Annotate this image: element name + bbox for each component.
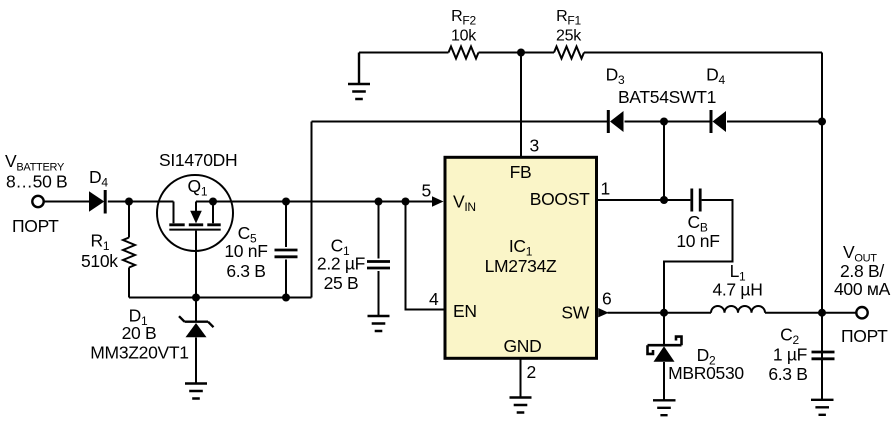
terminal input port	[32, 196, 43, 207]
svg-text:EN: EN	[453, 301, 477, 321]
arrow out of SW pin 6	[598, 308, 609, 317]
wire BOOST pin 1	[598, 200, 733, 313]
svg-text:RF2: RF2	[451, 8, 476, 28]
capacitor C5	[285, 202, 287, 298]
capacitor C1	[367, 202, 390, 317]
svg-text:10k: 10k	[451, 28, 477, 45]
node C5 top	[282, 198, 290, 206]
ground top-left	[348, 53, 370, 100]
wire left riser	[311, 122, 313, 298]
wire D3 junction to BOOST	[663, 122, 665, 201]
svg-text:BAT54SWT1: BAT54SWT1	[618, 87, 716, 107]
diode D2 schottky	[648, 313, 682, 401]
ground D2	[653, 400, 676, 415]
node FB divider junction	[517, 49, 525, 57]
svg-text:ПОРТ: ПОРТ	[841, 326, 888, 346]
svg-text:VBATTERY: VBATTERY	[5, 151, 65, 174]
diode D4 top	[711, 110, 726, 133]
svg-text:RF1: RF1	[556, 8, 581, 28]
svg-text:SW: SW	[561, 303, 589, 323]
node right rail top junction	[818, 118, 826, 126]
terminal output port	[856, 307, 867, 318]
capacitor C2	[812, 352, 835, 359]
node Q1 gate bottom	[192, 294, 200, 302]
svg-text:1 µF: 1 µF	[773, 345, 807, 365]
svg-text:1: 1	[601, 179, 610, 199]
transistor Q1 arrowhead	[190, 211, 202, 224]
capacitor CB	[692, 189, 700, 212]
svg-text:400 мА: 400 мА	[834, 279, 891, 299]
node C5 bottom	[282, 294, 290, 302]
node EN branch	[402, 198, 410, 206]
ground IC pin 2	[510, 398, 532, 413]
wire SW rail	[608, 312, 857, 314]
node C1 top	[375, 198, 383, 206]
node D3-D4 junction	[660, 118, 668, 126]
svg-text:MBR0530: MBR0530	[668, 363, 744, 383]
svg-text:D4: D4	[89, 167, 108, 190]
inductor L1	[711, 306, 765, 313]
op-amp IC1 box	[445, 157, 597, 358]
svg-text:MM3Z20VT1: MM3Z20VT1	[90, 343, 188, 363]
node after D4 input	[125, 198, 133, 206]
wire bottom-left rail	[129, 297, 312, 299]
svg-text:ПОРТ: ПОРТ	[12, 216, 59, 236]
ground C2	[811, 400, 834, 415]
svg-text:2.8 В/: 2.8 В/	[840, 261, 884, 281]
ground D1	[185, 384, 207, 399]
svg-text:SI1470DH: SI1470DH	[159, 150, 237, 170]
svg-text:4.7 µH: 4.7 µH	[712, 280, 762, 300]
transistor Q1 body circle	[157, 175, 233, 251]
svg-text:6.3 В: 6.3 В	[768, 364, 807, 384]
node SW-D2 junction	[660, 309, 668, 317]
arrow into VIN pin 5	[432, 196, 444, 206]
node Q1 drain	[209, 198, 217, 206]
diode D4 input	[89, 190, 105, 214]
svg-text:Q1: Q1	[188, 176, 208, 199]
wire top feedback rail	[359, 52, 822, 54]
svg-text:4: 4	[429, 289, 439, 309]
zener D1	[179, 298, 214, 384]
diode D3	[608, 110, 623, 133]
resistor RF2	[449, 47, 479, 59]
ground C1	[368, 316, 390, 331]
svg-text:FB: FB	[510, 162, 532, 182]
svg-text:D3: D3	[606, 65, 625, 88]
svg-text:BOOST: BOOST	[530, 189, 590, 209]
wire gate/boost mid rail	[312, 121, 823, 123]
svg-text:20 В: 20 В	[122, 323, 157, 343]
svg-text:25 В: 25 В	[324, 273, 359, 293]
svg-text:5: 5	[422, 181, 431, 201]
svg-text:6.3 В: 6.3 В	[226, 261, 265, 281]
svg-text:GND: GND	[504, 336, 542, 356]
wire input rail	[44, 201, 432, 203]
svg-text:6: 6	[602, 289, 611, 309]
svg-text:510k: 510k	[81, 251, 118, 271]
wire R1 branch	[128, 202, 130, 298]
svg-text:3: 3	[530, 136, 539, 156]
wire right vertical rail	[821, 53, 823, 400]
node output junction	[818, 309, 826, 317]
svg-text:10 nF: 10 nF	[676, 231, 719, 251]
resistor R1	[123, 238, 135, 268]
wire GND pin 2	[520, 358, 522, 397]
svg-text:25k: 25k	[556, 28, 582, 45]
transistor Q1 internals	[174, 202, 214, 224]
svg-text:2.2 µF: 2.2 µF	[317, 254, 365, 274]
resistor RF1	[554, 47, 584, 59]
svg-text:10 nF: 10 nF	[224, 241, 267, 261]
node BOOST junction	[660, 196, 668, 204]
wire FB pin 3 vertical	[520, 53, 522, 157]
svg-text:R1: R1	[91, 231, 110, 254]
svg-text:D4: D4	[706, 65, 725, 88]
svg-text:2: 2	[527, 362, 536, 382]
wire EN branch	[406, 202, 444, 310]
svg-text:8…50 В: 8…50 В	[6, 172, 67, 192]
svg-text:LM2734Z: LM2734Z	[485, 256, 557, 276]
